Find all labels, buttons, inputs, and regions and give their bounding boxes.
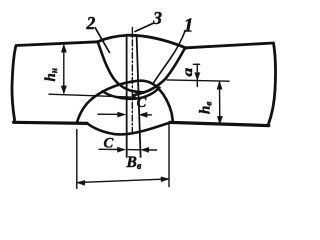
h_n dimension line — [63, 46, 65, 93]
left plate bottom edge — [14, 122, 88, 123]
svg-text:Вв: Вв — [126, 154, 142, 172]
svg-text:1: 1 — [184, 15, 194, 37]
weld axis (dash-dot centerline) — [131, 28, 133, 133]
a arrow down — [195, 73, 200, 80]
lower C left arrow — [117, 147, 125, 152]
upper C right arrow — [139, 112, 147, 117]
left fusion line of upper weld — [98, 43, 144, 92]
leader for 3 — [135, 24, 152, 32]
lower C right shaft — [146, 149, 157, 151]
h_n arrow up — [61, 44, 66, 52]
h_v arrow up — [217, 81, 222, 89]
h_n reference line (upper weld root level, left) — [49, 94, 136, 97]
upper C dimension left shaft — [98, 113, 123, 115]
upper C left arrow — [118, 112, 126, 117]
svg-text:C: C — [137, 95, 147, 111]
a dimension line — [196, 64, 198, 86]
leader for 2 — [95, 28, 109, 53]
left plate — [12, 42, 98, 122]
svg-text:hв: hв — [198, 102, 214, 114]
right plate — [186, 43, 276, 125]
lower C mid segment — [127, 149, 141, 151]
svg-text:C: C — [104, 135, 114, 151]
backing weld dome (lower fusion boundary) — [77, 81, 173, 123]
B_v right arrow — [161, 177, 169, 182]
weld cap (upper bead face) — [97, 35, 186, 48]
line A: backing weld penetration level (right) — [167, 80, 229, 81]
B_v right extension line — [168, 125, 170, 187]
B_v left arrow — [77, 180, 85, 185]
lower C dimension line — [99, 148, 123, 150]
gap edge line right — [137, 35, 141, 157]
right fusion line of upper weld — [134, 49, 185, 95]
right plate bottom edge — [170, 122, 269, 125]
svg-text:2: 2 — [86, 13, 96, 33]
svg-text:hн: hн — [43, 68, 59, 81]
svg-text:3: 3 — [152, 8, 162, 28]
root of upper weld: bottom arc of penetration — [103, 88, 160, 99]
gap edge line left — [126, 35, 128, 158]
h_v dimension line — [219, 82, 221, 125]
upper C right shaft — [141, 114, 152, 116]
h_n arrow down — [61, 86, 66, 94]
B_v left extension line — [76, 130, 78, 189]
a top tick — [193, 63, 199, 65]
B_v dimension line — [77, 179, 169, 183]
svg-text:a: a — [180, 68, 195, 77]
h_v arrow down — [217, 116, 222, 124]
leader for 1 — [153, 31, 186, 85]
lower C right arrow — [141, 147, 149, 152]
backing bead bottom (outer face of lower bead) — [87, 123, 170, 135]
